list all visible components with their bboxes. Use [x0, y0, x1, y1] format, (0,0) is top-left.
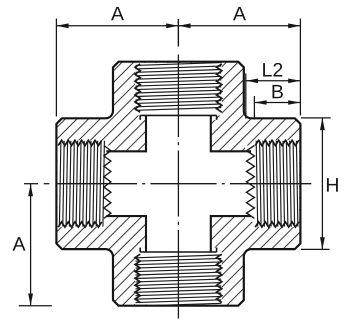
body outline [56, 62, 300, 306]
dimension B [253, 96, 255, 120]
bottom arm internal thread [135, 254, 222, 302]
label A (left) [13, 237, 26, 250]
dimension H [301, 117, 331, 119]
right arm thread end [247, 146, 255, 219]
label B [272, 85, 282, 98]
label L2 [263, 63, 272, 76]
bore clearings [58, 63, 300, 305]
label H [327, 178, 338, 191]
left arm internal thread [58, 140, 101, 227]
dimension A left [19, 305, 52, 307]
vertical centerline [177, 19, 179, 47]
cross fitting body (section hatch) [56, 62, 300, 306]
top arm internal thread [135, 64, 222, 112]
dimension A top: extension lines [55, 19, 57, 117]
horizontal centerline [24, 183, 38, 185]
bore walls [107, 117, 250, 251]
left arm thread end [104, 146, 111, 219]
right arm internal thread [255, 140, 299, 227]
label A (top left) [111, 7, 124, 20]
dimension L2 [245, 74, 247, 119]
dimension A top: dimension line [56, 25, 300, 27]
label A (top right) [233, 7, 246, 20]
